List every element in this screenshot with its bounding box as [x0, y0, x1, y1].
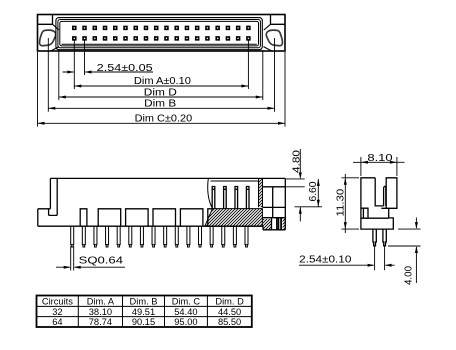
front view top edge	[50, 177, 285, 179]
section male pin 1	[212, 187, 215, 209]
front view pin comb	[71, 226, 248, 247]
svg-text:64: 64	[52, 317, 62, 327]
svg-text:Dim B: Dim B	[144, 99, 176, 110]
svg-text:6.60: 6.60	[308, 181, 319, 201]
side view left inner block	[361, 208, 389, 218]
svg-text:Dim. B: Dim. B	[130, 297, 158, 307]
svg-text:Dim D: Dim D	[144, 87, 177, 98]
dimension Dim B	[48, 107, 274, 110]
side view left leg pin	[373, 229, 376, 246]
dimension 2.54±0.05	[63, 71, 154, 74]
right end lower step boxes	[263, 218, 285, 230]
extension line dim D right	[262, 50, 264, 100]
dimension 6.60	[317, 179, 320, 207]
right end hatch under box	[263, 219, 272, 230]
cutaway break curve	[208, 178, 213, 208]
svg-text:95.00: 95.00	[174, 317, 197, 327]
table header row text	[42, 297, 244, 307]
pin row a (top row squares)	[72, 26, 251, 31]
extension line dim C right	[284, 52, 286, 127]
section male pin 4	[246, 187, 249, 209]
svg-text:Circuits: Circuits	[42, 297, 73, 307]
dimension Dim D	[59, 96, 263, 99]
svg-text:49.51: 49.51	[132, 307, 155, 317]
right end block outline	[263, 178, 286, 229]
table row 64 text	[52, 317, 241, 327]
dimension 4.00	[415, 218, 418, 284]
svg-text:85.50: 85.50	[218, 317, 241, 327]
svg-text:4.00: 4.00	[404, 266, 415, 285]
dimension 8.10	[353, 161, 405, 164]
side view right leg pin	[383, 229, 386, 246]
extension line first pin	[73, 40, 75, 89]
sq0.64 extension lines	[71, 246, 74, 270]
svg-text:Dim A±0.10: Dim A±0.10	[134, 76, 191, 87]
cutaway inner top line	[211, 180, 259, 182]
left ear plate chamfers	[52, 24, 60, 50]
svg-text:4.80: 4.80	[291, 149, 302, 173]
table frame	[37, 296, 252, 328]
svg-text:2.54±0.05: 2.54±0.05	[97, 63, 154, 74]
top-left corner step	[38, 15, 53, 25]
front view wafer bump 2	[126, 209, 149, 226]
svg-text:90.15: 90.15	[132, 317, 155, 327]
ext line bump-top level right	[295, 206, 323, 208]
ext lines 4.00	[388, 229, 421, 246]
svg-text:SQ0.64: SQ0.64	[79, 256, 124, 267]
table row 32 text	[52, 307, 241, 317]
extension line dim B right	[274, 38, 276, 112]
right end small hatch	[283, 218, 286, 230]
front view wafer bump 3	[153, 209, 176, 226]
front view left key notch	[38, 209, 57, 226]
section insulator hatch block	[205, 209, 263, 227]
svg-text:38.10: 38.10	[89, 307, 112, 317]
dimension Dim A±0.10	[74, 85, 248, 88]
right end black bars	[278, 218, 280, 230]
svg-text:32: 32	[52, 307, 62, 317]
svg-text:11.30: 11.30	[336, 188, 347, 216]
dimension Dim C±0.20	[38, 122, 286, 125]
svg-text:78.74: 78.74	[89, 317, 112, 327]
ext lines 8.10	[361, 157, 397, 176]
connector body wall 3	[60, 21, 259, 46]
front view left wall	[50, 178, 57, 215]
table column lines	[78, 296, 207, 328]
ext line pin-top level right	[285, 186, 304, 188]
section right wall hatch strip	[259, 178, 263, 207]
right ear hole	[266, 30, 282, 46]
svg-text:8.10: 8.10	[367, 153, 393, 164]
right ear plate chamfers	[264, 24, 272, 50]
extension line last pin	[247, 40, 249, 89]
front view bottom edge	[38, 225, 263, 227]
connector body wall 2	[58, 20, 261, 48]
ext lines 11.30	[342, 178, 360, 229]
front view wafer bump 5	[208, 209, 213, 226]
front view wafer bump 4	[180, 209, 203, 226]
top view outer housing	[38, 15, 286, 52]
left ear hole	[40, 30, 56, 46]
svg-text:Dim. D: Dim. D	[215, 297, 244, 307]
top-right corner step	[271, 15, 286, 25]
front view wafer bump 1	[98, 209, 121, 226]
svg-text:54.40: 54.40	[174, 307, 197, 317]
extension line dim D left	[58, 50, 60, 100]
extension line dim C left	[37, 52, 39, 127]
ext line top of body right	[285, 178, 304, 180]
connector body wall 1	[56, 18, 262, 50]
svg-text:Dim. A: Dim. A	[87, 297, 115, 307]
section male pin 3	[235, 187, 238, 209]
dimension 4.80	[299, 149, 302, 221]
table row lines	[37, 306, 252, 316]
dimension 2.54±0.10	[299, 264, 395, 267]
svg-text:Dim. C: Dim. C	[172, 297, 201, 307]
svg-text:Dim C±0.20: Dim C±0.20	[135, 114, 193, 125]
dimension SQ0.64	[56, 266, 125, 269]
section male pin 2	[224, 187, 227, 209]
ext lines 2.54±0.10 pins	[375, 247, 385, 271]
connector body cavity floor edge	[62, 43, 257, 45]
svg-text:2.54±0.10: 2.54±0.10	[299, 255, 352, 266]
front view wafer bump narrow	[80, 209, 87, 226]
dimension 11.30	[344, 174, 347, 233]
side view male pin in slot	[384, 186, 386, 206]
extension line second pin	[84, 40, 86, 75]
side view body outline	[361, 178, 397, 229]
svg-text:44.50: 44.50	[218, 307, 241, 317]
extension line dim B left	[47, 38, 49, 112]
pin row b (bottom row squares)	[72, 36, 251, 41]
